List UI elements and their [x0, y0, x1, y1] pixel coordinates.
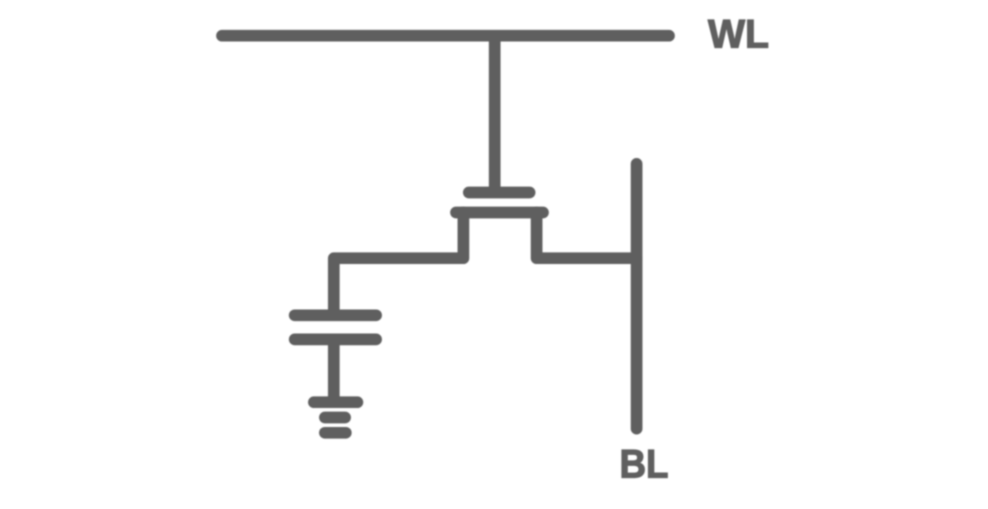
wire BL bus [631, 164, 643, 429]
transistor M1 gate bar [469, 187, 530, 199]
capacitor Cs bottom plate [295, 334, 376, 346]
capacitor Cs top plate [295, 309, 376, 321]
ground bar 2 [325, 412, 345, 424]
wire capacitor to ground [328, 339, 340, 402]
transistor M1 channel bar [456, 207, 543, 219]
wire drain lead to BL [537, 213, 637, 259]
wire gate lead [489, 36, 501, 191]
ground bar 1 [314, 396, 358, 408]
svg-text:WL: WL [708, 12, 769, 56]
ground bar 3 [325, 427, 346, 439]
wire source lead to capacitor [334, 213, 464, 313]
wire WL bus [222, 30, 669, 42]
svg-text:BL: BL [620, 443, 669, 487]
